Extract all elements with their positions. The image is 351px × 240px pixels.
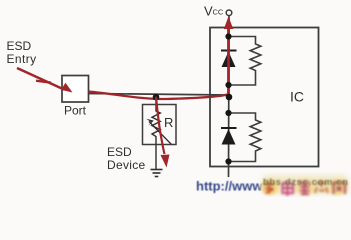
node rail junction top (resistor tap)	[225, 33, 231, 39]
varistor adjustment arrow	[149, 122, 172, 145]
watermark colored logo	[261, 175, 349, 196]
svg-text:ESD: ESD	[107, 145, 132, 159]
red ESD path through device to ground	[156, 97, 165, 154]
ESD device box	[143, 105, 177, 145]
wire Vcc rail	[228, 16, 231, 177]
wire junction to ESD device	[155, 97, 157, 106]
varistor R zigzag element	[152, 105, 160, 145]
Vcc terminal circle	[226, 10, 232, 16]
diode D1 (to Vcc)	[221, 50, 237, 52]
svg-text:bbs.dzsc.com.cn: bbs.dzsc.com.cn	[263, 177, 349, 188]
resistor upper branch	[229, 37, 261, 86]
node main wire to rail	[226, 94, 233, 101]
node rail junction above wire	[225, 82, 231, 88]
diode D2 (to ground rail)	[221, 127, 237, 129]
node rail junction bottom	[225, 158, 231, 164]
svg-text:CC: CC	[213, 8, 224, 17]
svg-text:IC: IC	[290, 89, 304, 105]
IC box	[210, 28, 319, 167]
svg-text:ESD: ESD	[7, 39, 32, 53]
svg-text:R: R	[164, 115, 173, 130]
svg-text:Entry: Entry	[7, 52, 37, 66]
ground	[151, 170, 163, 177]
resistor lower branch	[229, 113, 261, 162]
wire Port to IC rail	[89, 94, 230, 96]
red ESD current path along wire	[89, 92, 228, 100]
svg-text:Port: Port	[64, 104, 87, 118]
node rail junction lower tap	[225, 110, 231, 116]
ESD entry arrow	[17, 68, 73, 93]
port box Port	[62, 76, 89, 103]
wire ESD device to ground	[155, 145, 157, 170]
svg-text:Device: Device	[107, 158, 146, 172]
node junction of ESD device on main wire	[153, 94, 160, 101]
svg-text:http://www.: http://www.	[196, 179, 266, 194]
red ESD path up rail to Vcc	[227, 28, 230, 97]
